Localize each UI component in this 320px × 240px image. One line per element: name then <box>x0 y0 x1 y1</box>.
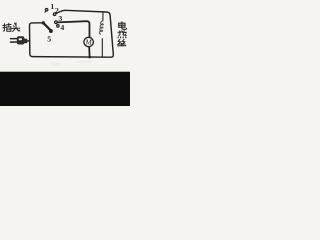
svg-text:1: 1 <box>50 2 54 11</box>
svg-text:4: 4 <box>60 23 64 32</box>
svg-text:5: 5 <box>47 34 51 43</box>
svg-text:M: M <box>85 38 93 47</box>
svg-text:3: 3 <box>58 14 62 23</box>
